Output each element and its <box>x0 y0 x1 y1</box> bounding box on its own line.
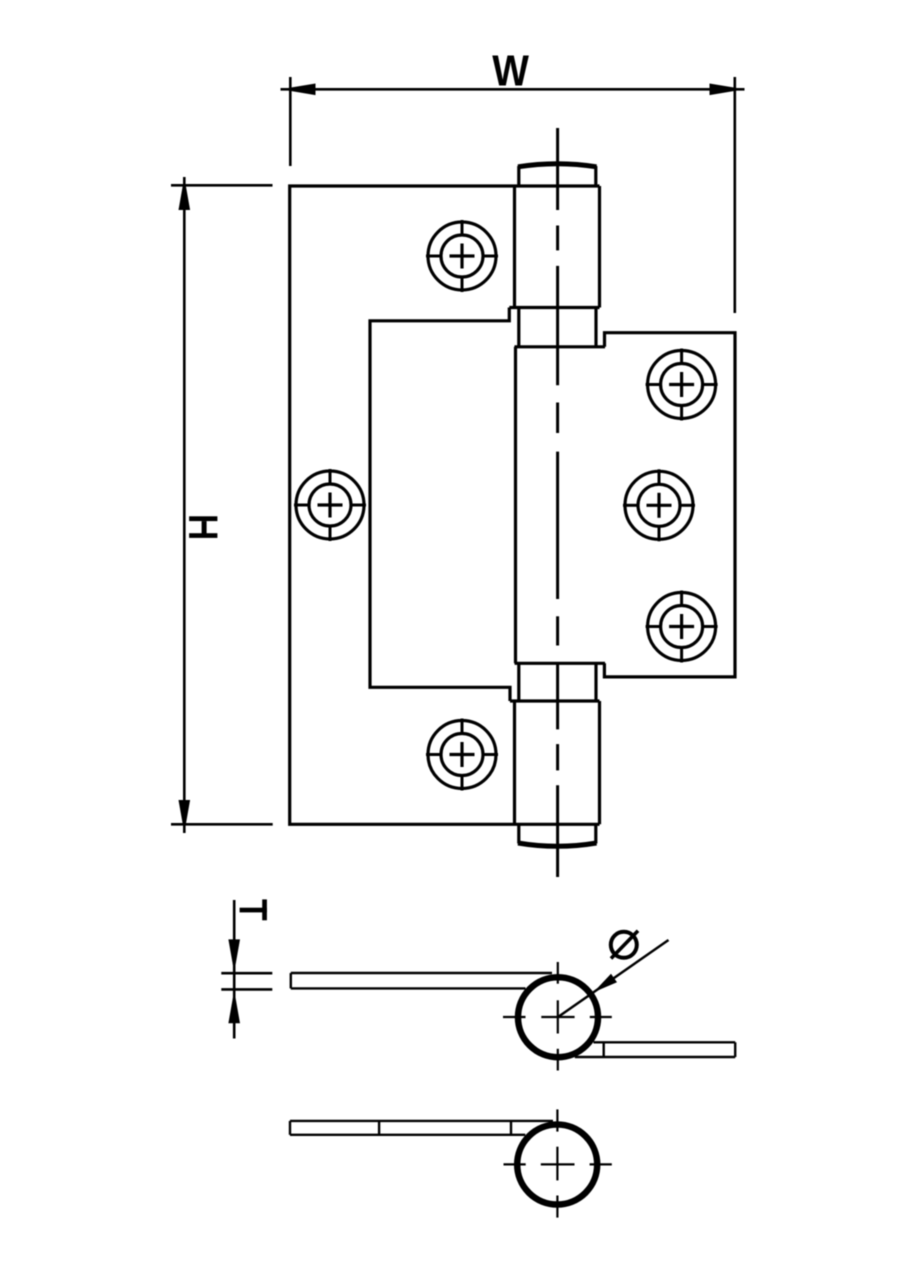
side view barrel circle (top profile) <box>518 977 598 1057</box>
right leaf outline <box>604 333 735 677</box>
pin top cap <box>518 164 597 186</box>
middle knuckle left edge <box>514 347 517 664</box>
side view second leaf plate (top profile) <box>575 1042 735 1057</box>
side view leaf plate (top profile) <box>291 973 552 988</box>
diameter leader line <box>558 940 669 1017</box>
upper knuckle ring <box>515 308 606 347</box>
screw hole left-bottom <box>426 719 498 791</box>
dimension H line <box>183 177 186 833</box>
dimension T line <box>233 900 236 1039</box>
dimension W right extension line <box>733 77 736 313</box>
dimension W left arrowhead <box>281 84 316 96</box>
screw hole right-top <box>646 349 718 421</box>
dimension H top arrowhead <box>179 177 191 210</box>
screw hole left-top <box>426 220 498 292</box>
diameter leader arrowhead <box>594 974 618 993</box>
dimension W label <box>492 46 530 95</box>
side view leaf plate (bottom profile) <box>290 1121 553 1135</box>
dimension T lower extension line <box>221 988 272 991</box>
dimension H bottom extension line <box>171 823 273 826</box>
dimension W line <box>281 88 745 91</box>
screw hole right-bottom <box>646 591 718 663</box>
svg-text:W: W <box>492 46 530 95</box>
dimension T upper arrowhead <box>228 939 240 972</box>
pin centerline <box>556 128 559 877</box>
upper knuckle <box>509 186 599 308</box>
screw hole right-middle <box>623 469 695 541</box>
side view barrel circle (bottom profile) <box>517 1125 597 1205</box>
dimension T lower arrowhead <box>228 990 240 1023</box>
side view barrel center mark (bottom profile) <box>504 1109 612 1217</box>
left leaf cutout <box>370 308 510 702</box>
lower knuckle ring <box>510 663 605 701</box>
dimension T upper extension line <box>221 972 272 975</box>
dimension H top extension line <box>171 184 273 187</box>
dimension W right arrowhead <box>710 84 745 96</box>
screw hole left-middle <box>294 469 366 541</box>
dimension H bottom arrowhead <box>179 800 191 833</box>
diameter symbol <box>611 931 638 959</box>
dimension H label <box>189 516 217 538</box>
dimension T label <box>240 899 267 920</box>
left leaf outline <box>290 186 600 824</box>
lower knuckle <box>515 701 600 824</box>
side view barrel center mark (top profile) <box>503 962 612 1071</box>
dimension W left extension line <box>289 77 292 166</box>
pin bottom cap <box>518 824 597 846</box>
